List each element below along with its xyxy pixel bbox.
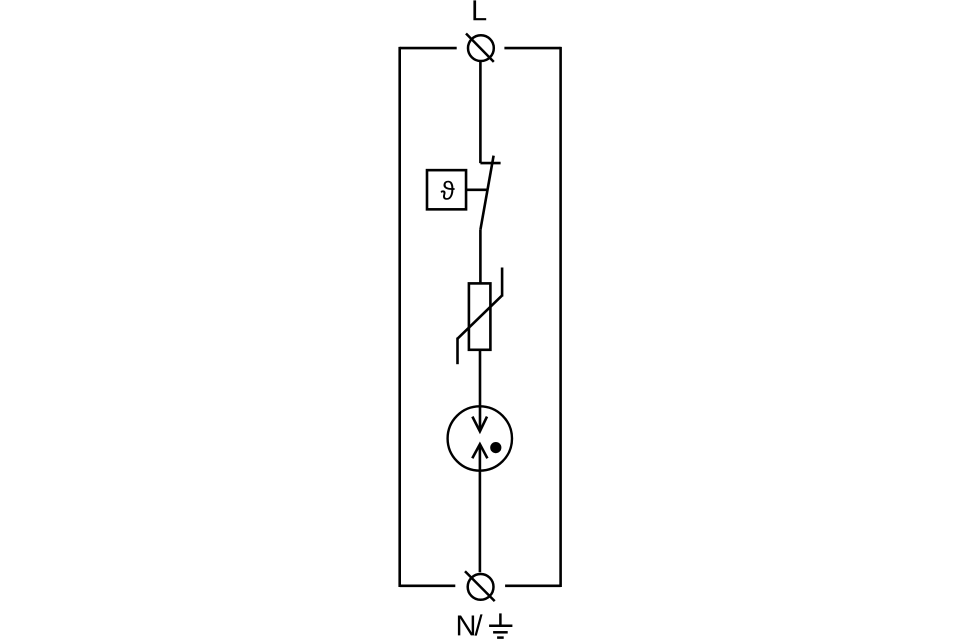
varistor body rect xyxy=(469,283,491,349)
switch fixed contact bar xyxy=(480,162,500,165)
theta symbol xyxy=(441,181,455,200)
wire indicator to terminal N xyxy=(479,444,482,572)
earth symbol xyxy=(489,613,512,637)
mechanical link line xyxy=(467,189,487,192)
enclosure box (dashed at terminals) xyxy=(400,47,561,587)
wire varistor to indicator xyxy=(479,350,482,432)
indicator circle xyxy=(448,406,512,470)
label N/ xyxy=(458,615,474,635)
up arrowhead xyxy=(472,444,487,458)
switch blade (thermal disconnector) xyxy=(480,156,493,230)
indicator dot xyxy=(490,442,501,453)
terminal L (circle with slash) xyxy=(466,34,494,62)
terminal N (circle with slash) xyxy=(465,571,495,601)
varistor diagonal xyxy=(458,295,503,338)
down arrowhead xyxy=(472,417,487,432)
wire switch to varistor xyxy=(479,230,482,284)
varistor upper stub xyxy=(501,268,504,297)
thermal element box xyxy=(427,170,466,209)
varistor lower stub xyxy=(456,338,459,365)
wire terminal L to switch xyxy=(479,62,482,164)
label L xyxy=(473,0,486,20)
